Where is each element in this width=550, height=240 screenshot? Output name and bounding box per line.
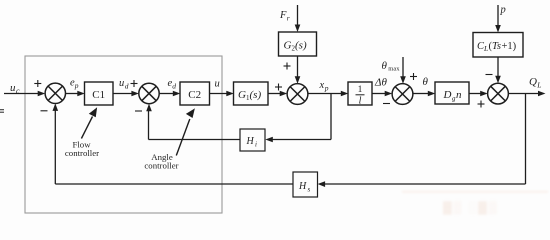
wire CL to sum5	[497, 57, 499, 77]
sign plus sum3 top	[284, 65, 291, 67]
wire tap xp down	[330, 94, 332, 140]
svg-text:l: l	[359, 96, 362, 107]
svg-text:C1: C1	[92, 89, 105, 101]
arrow CL into sum5 top	[495, 76, 501, 84]
summing junction sum4	[392, 84, 413, 105]
sign plus sum3 left	[275, 86, 282, 88]
wire sum3 to 1/l block with xp tap	[308, 93, 342, 95]
wire Fr into G2	[297, 5, 299, 26]
arrow into Hi right	[265, 137, 273, 143]
faint watermark smudge bottom right	[402, 191, 548, 215]
wire tap to Hi	[271, 139, 331, 141]
controller boundary box	[25, 56, 222, 213]
sign plus sum4	[410, 76, 417, 78]
arrow G2 into sum3 top	[295, 76, 301, 84]
svg-text:p: p	[74, 81, 79, 90]
block Hi	[240, 129, 265, 151]
sign minus sum1	[41, 110, 48, 112]
svg-text:controller: controller	[65, 148, 99, 158]
wire G2 to sum3	[297, 56, 299, 78]
wire output QL	[508, 93, 539, 95]
block Hs	[293, 172, 318, 197]
summing junction sum5	[488, 83, 509, 104]
sign minus sum2	[135, 110, 142, 112]
arrow output end	[538, 91, 546, 97]
svg-text:1: 1	[358, 85, 363, 95]
annotation arrow flow controller	[81, 109, 193, 156]
sign plus sum5	[478, 103, 485, 105]
svg-text:(s): (s)	[295, 40, 307, 52]
sign minus sum5	[486, 74, 493, 76]
svg-text:+1): +1)	[502, 41, 517, 52]
wire 1/l to sum4	[372, 93, 386, 95]
svg-text:θ: θ	[423, 76, 429, 88]
svg-text:F: F	[279, 10, 287, 21]
arrow into sum2	[131, 91, 139, 97]
svg-text:controller: controller	[144, 160, 178, 170]
scan artifact left edge	[0, 109, 4, 113]
arrow into sum3	[280, 91, 288, 97]
sign minus sum4	[383, 103, 390, 105]
arrow into 1/l	[341, 91, 349, 97]
svg-text:θ: θ	[382, 60, 388, 72]
wire Hi to sum2 horizontal	[149, 139, 241, 141]
summing junction sum1	[45, 83, 508, 104]
wire Hi feedback up to sum2	[148, 110, 150, 140]
arrow into sum4	[385, 91, 393, 97]
block C2	[180, 82, 210, 105]
svg-text:Q: Q	[529, 76, 537, 88]
svg-text:(s): (s)	[250, 89, 262, 101]
svg-text:▓▒ ░▓▒: ▓▒ ░▓▒	[443, 200, 498, 215]
svg-text:i: i	[255, 141, 257, 149]
sign plus sum2	[131, 83, 138, 85]
svg-text:x: x	[319, 80, 325, 91]
svg-text:L: L	[483, 44, 488, 53]
block C1	[85, 32, 524, 197]
svg-text:C2: C2	[188, 89, 201, 101]
wire Dgn to sum5	[469, 93, 481, 95]
wire G1 to sum3	[268, 93, 281, 95]
svg-text:Ts: Ts	[492, 41, 501, 52]
arrow p into CL top	[495, 25, 501, 33]
arrow Hi up into sum2	[146, 104, 152, 112]
svg-text:D: D	[443, 89, 452, 101]
svg-text:H: H	[246, 136, 255, 147]
svg-text:u: u	[215, 79, 220, 90]
wire sum4 to Dgn	[413, 93, 429, 95]
wire C1 to sum2	[113, 93, 133, 95]
arrow into Dgn	[428, 91, 436, 97]
arrow into C1	[77, 91, 85, 97]
arrow Hs up into sum1	[53, 103, 59, 111]
arrow into G2 top	[295, 25, 301, 33]
svg-text:Δθ: Δθ	[374, 77, 387, 89]
block 1/l	[348, 82, 372, 105]
wire tap to Hs	[324, 183, 526, 185]
label u_c	[10, 5, 541, 194]
block Dgn	[435, 82, 469, 104]
wire theta_max down to sum4	[402, 57, 404, 78]
wire sum1 to C1	[66, 93, 79, 95]
block CL(Ts+1)	[473, 33, 523, 58]
svg-text:d: d	[172, 82, 176, 91]
svg-text:L: L	[536, 81, 541, 90]
svg-text:max: max	[388, 65, 400, 72]
svg-text:p: p	[500, 5, 506, 16]
block G1(s)	[234, 82, 269, 105]
svg-text:u: u	[119, 78, 124, 89]
svg-text:p: p	[324, 84, 329, 93]
arrow theta_max into sum4 top	[400, 76, 406, 84]
arrow into G1	[226, 91, 234, 97]
sign plus sum1	[34, 63, 492, 112]
svg-text:s: s	[308, 186, 311, 194]
arrow into sum5	[480, 91, 488, 97]
arrow into C2	[173, 91, 181, 97]
svg-text:G: G	[284, 40, 292, 52]
arrow into sum1	[38, 91, 46, 97]
wire C2 to G1	[210, 93, 228, 95]
svg-text:H: H	[298, 181, 307, 192]
wire p into CL	[497, 5, 499, 27]
svg-text:r: r	[287, 14, 290, 23]
wire Hs feedback up to sum1	[54, 110, 56, 185]
arrowheads	[38, 25, 546, 188]
svg-text:G: G	[238, 89, 246, 101]
wire Hs to sum1 horizontal	[55, 183, 293, 185]
svg-text:c: c	[16, 87, 20, 96]
svg-text:n: n	[456, 89, 462, 101]
svg-text:d: d	[125, 82, 129, 91]
wire input u_c	[4, 93, 39, 95]
wire sum2 to C2	[159, 93, 174, 95]
summing junction sum3	[287, 84, 308, 105]
block G2(s)	[279, 32, 317, 56]
wire tap output down	[525, 94, 527, 185]
annotation arrow angle controller	[176, 119, 190, 156]
arrow into Hs right	[318, 181, 326, 187]
summing junction sum2	[139, 83, 159, 103]
